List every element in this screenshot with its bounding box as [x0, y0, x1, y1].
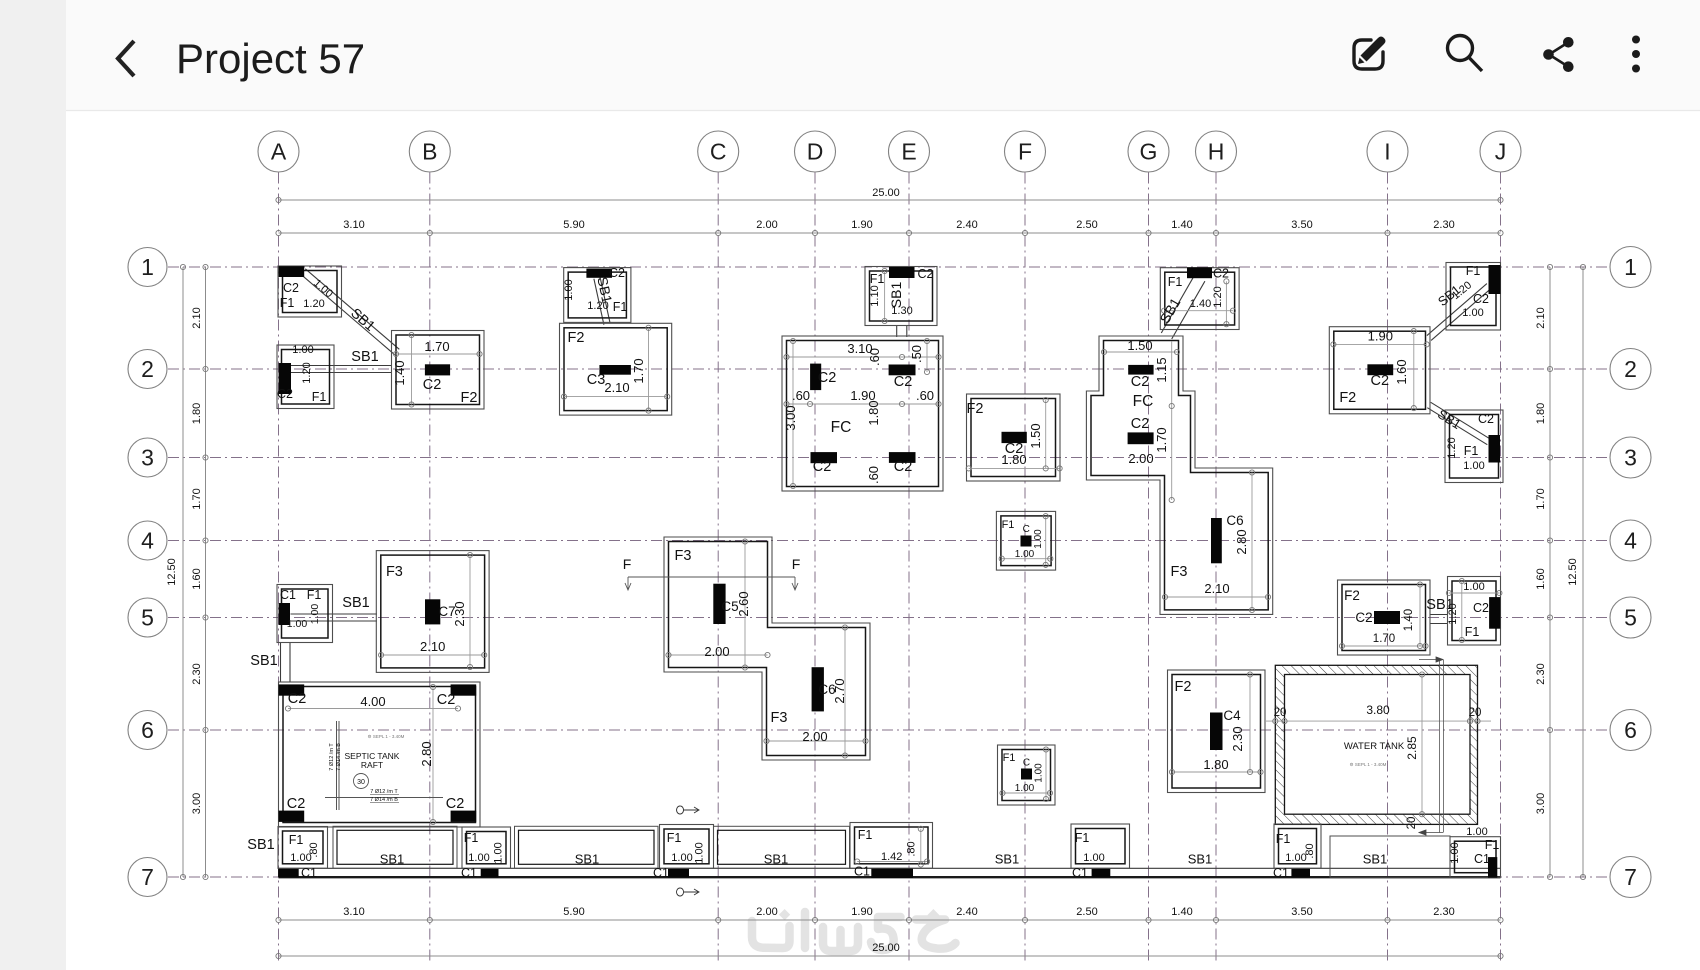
svg-text:F: F	[792, 556, 801, 572]
svg-text:6: 6	[1624, 717, 1637, 743]
svg-text:SB1: SB1	[995, 852, 1020, 867]
svg-text:1: 1	[1624, 254, 1637, 280]
svg-text:C: C	[710, 139, 727, 165]
svg-text:B: B	[422, 139, 437, 165]
svg-text:C2: C2	[287, 796, 306, 812]
svg-text:4.00: 4.00	[360, 694, 385, 709]
svg-text:2.30: 2.30	[1433, 219, 1454, 231]
svg-text:.80: .80	[1304, 843, 1316, 858]
svg-text:C2: C2	[818, 370, 837, 386]
svg-text:SB1: SB1	[351, 349, 378, 365]
svg-text:1.42: 1.42	[881, 851, 902, 863]
svg-text:C2: C2	[1371, 373, 1390, 389]
svg-text:.60: .60	[792, 388, 810, 403]
svg-text:2.10: 2.10	[420, 639, 445, 654]
svg-text:F1: F1	[870, 272, 885, 286]
svg-text:3.00: 3.00	[191, 793, 203, 814]
svg-text:C1: C1	[461, 866, 477, 880]
svg-text:30: 30	[357, 779, 365, 786]
svg-text:F3: F3	[771, 710, 788, 726]
svg-text:5: 5	[1624, 605, 1637, 631]
svg-text:3.00: 3.00	[1535, 793, 1547, 814]
svg-text:1.90: 1.90	[851, 906, 872, 918]
svg-text:I: I	[1384, 139, 1390, 165]
svg-text:1.00: 1.00	[1034, 763, 1045, 783]
svg-text:1.00: 1.00	[287, 618, 308, 630]
svg-text:SB1: SB1	[1363, 852, 1388, 867]
svg-text:H: H	[1208, 139, 1225, 165]
svg-text:1.20: 1.20	[303, 298, 324, 310]
svg-text:1.00: 1.00	[468, 852, 489, 864]
svg-text:C2: C2	[288, 691, 307, 707]
svg-text:2.70: 2.70	[832, 678, 847, 703]
svg-text:C2: C2	[894, 459, 913, 475]
svg-text:2.30: 2.30	[1230, 726, 1245, 751]
svg-text:C4: C4	[1223, 708, 1241, 723]
svg-text:12.50: 12.50	[1567, 558, 1579, 586]
svg-text:1.00: 1.00	[292, 344, 313, 356]
svg-text:⚙ SEPL 1 - 3.40M: ⚙ SEPL 1 - 3.40M	[1350, 762, 1387, 767]
svg-text:1.70: 1.70	[1535, 488, 1547, 509]
svg-text:F3: F3	[675, 548, 692, 564]
svg-text:C1: C1	[1474, 852, 1490, 866]
svg-text:F2: F2	[1339, 390, 1356, 406]
svg-text:SB1: SB1	[380, 852, 405, 867]
svg-text:2.30: 2.30	[452, 601, 467, 626]
svg-text:3.50: 3.50	[1291, 906, 1312, 918]
svg-text:C2: C2	[283, 281, 299, 295]
svg-text:1.00: 1.00	[1463, 460, 1484, 472]
svg-text:3: 3	[1624, 445, 1637, 471]
svg-text:3: 3	[141, 445, 154, 471]
svg-text:1.20: 1.20	[587, 300, 608, 312]
svg-text:C2: C2	[1213, 267, 1229, 281]
svg-text:5: 5	[141, 605, 154, 631]
svg-text:.50: .50	[909, 345, 924, 363]
svg-text:7 Ø14 /m B: 7 Ø14 /m B	[336, 743, 342, 771]
svg-text:2.50: 2.50	[1076, 906, 1097, 918]
svg-text:2.30: 2.30	[1433, 906, 1454, 918]
svg-text:2.10: 2.10	[604, 380, 629, 395]
svg-text:4: 4	[1624, 528, 1637, 554]
svg-text:4: 4	[141, 528, 154, 554]
svg-text:⚙ SEPL 1 - 3.40M: ⚙ SEPL 1 - 3.40M	[368, 734, 405, 739]
svg-text:1.40: 1.40	[1171, 906, 1192, 918]
svg-text:FC: FC	[831, 419, 852, 436]
svg-text:1.70: 1.70	[1373, 633, 1395, 645]
svg-text:1.00: 1.00	[493, 842, 505, 863]
svg-text:F3: F3	[386, 564, 403, 580]
svg-text:C1: C1	[301, 866, 317, 880]
svg-text:.80: .80	[308, 842, 320, 857]
svg-text:C2: C2	[918, 267, 934, 281]
svg-text:C2: C2	[1131, 374, 1150, 390]
svg-text:F1: F1	[1168, 275, 1183, 289]
svg-text:.60: .60	[866, 466, 881, 484]
svg-text:SB1: SB1	[1188, 852, 1213, 867]
svg-text:F: F	[1018, 139, 1032, 165]
svg-text:F: F	[623, 556, 632, 572]
svg-text:1.00: 1.00	[563, 279, 575, 300]
svg-text:C2: C2	[894, 374, 913, 390]
svg-text:J: J	[1495, 139, 1507, 165]
svg-text:1.70: 1.70	[191, 488, 203, 509]
svg-text:1.10: 1.10	[869, 285, 881, 306]
svg-text:1.00: 1.00	[694, 842, 706, 863]
svg-text:1.00: 1.00	[1033, 529, 1044, 549]
svg-text:F2: F2	[568, 330, 585, 346]
svg-text:E: E	[901, 139, 916, 165]
svg-text:7: 7	[1624, 864, 1637, 890]
svg-text:7 Ø14 /m B: 7 Ø14 /m B	[370, 797, 398, 803]
svg-text:2.30: 2.30	[191, 663, 203, 684]
svg-text:C1: C1	[653, 866, 669, 880]
svg-text:C1: C1	[1273, 866, 1289, 880]
svg-text:F1: F1	[280, 296, 295, 310]
svg-text:SB1: SB1	[575, 852, 600, 867]
svg-text:1.00: 1.00	[1462, 307, 1483, 319]
svg-text:1.80: 1.80	[1535, 403, 1547, 424]
svg-text:F2: F2	[1344, 588, 1360, 603]
svg-text:F3: F3	[1171, 564, 1188, 580]
svg-text:1.60: 1.60	[1394, 359, 1409, 384]
svg-text:C2: C2	[1473, 601, 1489, 615]
svg-text:2.30: 2.30	[1535, 663, 1547, 684]
svg-text:1.15: 1.15	[1154, 357, 1169, 382]
svg-text:2.10: 2.10	[191, 307, 203, 328]
svg-text:20: 20	[1274, 707, 1287, 719]
svg-text:3.50: 3.50	[1291, 219, 1312, 231]
svg-text:F2: F2	[1175, 679, 1192, 695]
svg-text:.80: .80	[905, 841, 917, 856]
svg-text:F1: F1	[464, 831, 479, 845]
svg-text:2.40: 2.40	[956, 219, 977, 231]
svg-text:F1: F1	[1465, 625, 1480, 639]
svg-text:C2: C2	[277, 387, 293, 401]
svg-text:1.20: 1.20	[301, 362, 313, 383]
svg-text:C2: C2	[1473, 292, 1489, 306]
svg-text:F2: F2	[461, 390, 478, 406]
svg-text:SB1: SB1	[247, 837, 274, 853]
svg-text:C2: C2	[1355, 610, 1372, 625]
svg-text:2.10: 2.10	[1204, 581, 1229, 596]
svg-text:1.80: 1.80	[866, 400, 881, 425]
svg-text:7 Ø12 /m T: 7 Ø12 /m T	[329, 743, 335, 771]
svg-text:C1: C1	[854, 865, 870, 879]
svg-text:6: 6	[141, 717, 154, 743]
svg-text:C2: C2	[446, 796, 465, 812]
svg-text:2.00: 2.00	[802, 729, 827, 744]
svg-text:C1: C1	[280, 588, 296, 602]
svg-text:1.90: 1.90	[1368, 329, 1393, 344]
svg-text:C6: C6	[1226, 513, 1243, 528]
svg-text:C2: C2	[1131, 416, 1150, 432]
svg-text:1.20: 1.20	[1447, 603, 1459, 624]
svg-text:A: A	[271, 139, 287, 165]
svg-text:2: 2	[141, 356, 154, 382]
svg-text:C: C	[1023, 758, 1030, 769]
svg-text:25.00: 25.00	[872, 187, 900, 199]
svg-text:2.50: 2.50	[1076, 219, 1097, 231]
svg-text:F1: F1	[1002, 519, 1015, 531]
svg-text:1.50: 1.50	[1028, 423, 1043, 448]
svg-text:F1: F1	[312, 390, 327, 404]
svg-text:F1: F1	[289, 833, 304, 847]
svg-text:.60: .60	[916, 388, 934, 403]
svg-text:1.70: 1.70	[631, 358, 646, 383]
svg-text:2.00: 2.00	[704, 644, 729, 659]
svg-text:RAFT: RAFT	[361, 760, 383, 770]
svg-text:2.00: 2.00	[756, 219, 777, 231]
svg-text:1.60: 1.60	[191, 568, 203, 589]
svg-text:5.90: 5.90	[563, 219, 584, 231]
svg-text:F1: F1	[613, 300, 628, 314]
svg-text:C1: C1	[1072, 866, 1088, 880]
svg-text:3.80: 3.80	[1366, 703, 1390, 717]
svg-text:1.00: 1.00	[1449, 842, 1461, 863]
svg-text:2.10: 2.10	[1535, 307, 1547, 328]
svg-text:F2: F2	[967, 401, 984, 417]
svg-text:C3: C3	[587, 372, 606, 388]
svg-text:1.50: 1.50	[1127, 338, 1152, 353]
svg-text:12.50: 12.50	[166, 558, 178, 586]
svg-text:7 Ø12 /m T: 7 Ø12 /m T	[370, 789, 398, 795]
svg-text:F1: F1	[307, 588, 322, 602]
svg-text:3.10: 3.10	[343, 219, 364, 231]
svg-text:1: 1	[141, 254, 154, 280]
svg-text:2.85: 2.85	[1405, 736, 1419, 760]
svg-text:1.20: 1.20	[1212, 286, 1224, 307]
svg-text:SB1: SB1	[342, 595, 369, 611]
svg-text:F1: F1	[1075, 831, 1090, 845]
svg-text:C: C	[1023, 524, 1030, 535]
svg-text:1.70: 1.70	[1154, 427, 1169, 452]
svg-text:1.00: 1.00	[1015, 783, 1035, 794]
svg-text:1.00: 1.00	[1015, 549, 1035, 560]
svg-text:1.80: 1.80	[191, 403, 203, 424]
svg-text:2: 2	[1624, 356, 1637, 382]
svg-text:G: G	[1140, 139, 1158, 165]
svg-text:C2: C2	[437, 692, 456, 708]
svg-text:1.40: 1.40	[1171, 219, 1192, 231]
svg-text:1.60: 1.60	[1535, 568, 1547, 589]
svg-text:3.00: 3.00	[783, 405, 798, 430]
svg-text:2.40: 2.40	[956, 906, 977, 918]
svg-text:D: D	[807, 139, 824, 165]
svg-text:C2: C2	[1478, 412, 1494, 426]
svg-text:F1: F1	[667, 831, 682, 845]
svg-text:1.80: 1.80	[1001, 452, 1026, 467]
svg-text:Project 57: Project 57	[176, 35, 365, 82]
svg-text:2.00: 2.00	[1128, 451, 1153, 466]
svg-text:2.00: 2.00	[756, 906, 777, 918]
svg-text:1.80: 1.80	[1203, 757, 1228, 772]
svg-text:20: 20	[1406, 817, 1418, 830]
svg-text:5.90: 5.90	[563, 906, 584, 918]
svg-text:1.70: 1.70	[424, 339, 449, 354]
svg-text:25.00: 25.00	[872, 942, 900, 954]
svg-text:2.80: 2.80	[419, 741, 434, 766]
svg-text:1.00: 1.00	[309, 604, 321, 625]
svg-text:1.40: 1.40	[392, 360, 407, 385]
svg-text:WATER TANK: WATER TANK	[1344, 741, 1405, 752]
svg-text:1.90: 1.90	[851, 219, 872, 231]
svg-text:F1: F1	[1466, 264, 1481, 278]
svg-text:1.00: 1.00	[1463, 581, 1484, 593]
svg-text:F1: F1	[1276, 832, 1291, 846]
svg-text:FC: FC	[1133, 393, 1154, 410]
svg-text:2.60: 2.60	[736, 591, 751, 616]
svg-text:20: 20	[1469, 707, 1482, 719]
svg-text:1.30: 1.30	[891, 305, 912, 317]
svg-text:1.00: 1.00	[1083, 852, 1104, 864]
svg-text:.60: .60	[867, 348, 882, 366]
svg-text:2.80: 2.80	[1234, 529, 1249, 554]
svg-text:1.00: 1.00	[1466, 826, 1487, 838]
svg-text:1.00: 1.00	[671, 852, 692, 864]
svg-text:C2: C2	[423, 377, 442, 393]
svg-text:F1: F1	[1464, 444, 1479, 458]
svg-text:C2: C2	[813, 459, 832, 475]
svg-text:3.10: 3.10	[343, 906, 364, 918]
svg-text:1.40: 1.40	[1403, 609, 1415, 631]
svg-text:SB1: SB1	[250, 653, 277, 669]
svg-text:SB1: SB1	[764, 852, 789, 867]
svg-text:1.40: 1.40	[1190, 298, 1211, 310]
svg-text:F1: F1	[1485, 838, 1500, 852]
svg-text:7: 7	[141, 864, 154, 890]
svg-text:1.20: 1.20	[1446, 437, 1458, 458]
svg-text:F1: F1	[1003, 752, 1016, 764]
svg-text:F1: F1	[858, 828, 873, 842]
